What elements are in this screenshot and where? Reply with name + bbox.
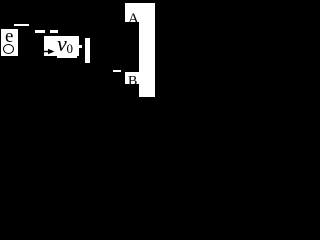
screen right column (white fill, full height) xyxy=(139,3,155,97)
white dash segment 2 (trajectory remnant) xyxy=(50,30,58,33)
v0 label patch (white fill) xyxy=(44,36,79,56)
white vertical bar (field region remnant) xyxy=(85,38,90,63)
v0 patch lower lip xyxy=(57,56,77,58)
white dash segment 1 (trajectory remnant) xyxy=(35,30,45,33)
electron source box (white fill) xyxy=(1,29,18,56)
label B patch (white fill) xyxy=(125,72,139,84)
velocity arrow (shaft + head) xyxy=(0,0,159,99)
label B xyxy=(128,74,137,90)
white dash above source box xyxy=(14,24,29,26)
label v0 (italic v) xyxy=(57,31,67,57)
electron label e xyxy=(5,26,13,48)
electron ellipse xyxy=(3,44,14,54)
label A xyxy=(128,11,139,28)
label v0 (subscript 0) xyxy=(67,41,74,57)
small white tick right of v0 patch xyxy=(79,45,82,48)
screen top section (white fill, behind label A) xyxy=(125,3,155,22)
white dash left of B xyxy=(113,70,121,72)
